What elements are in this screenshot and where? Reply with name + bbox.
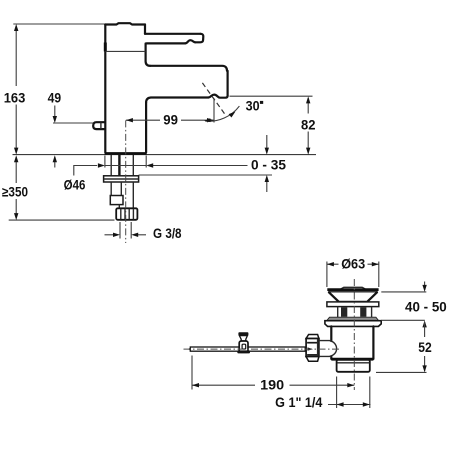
dim G1 1/4 line [328,404,371,406]
hose line [132,182,134,208]
left leg line a [110,182,112,196]
arrow 99 left [126,118,133,122]
spout outlet wave (bump on bottom edge) [208,95,227,98]
svg-text:G 1" 1/4: G 1" 1/4 [275,395,323,410]
G3/8 witness line left [119,222,121,239]
arrow 99 right [207,118,214,122]
52 extension line bottom [376,371,427,373]
arrow 163 down [14,148,18,155]
knurl rib 3 [128,209,130,220]
spout right edge [227,71,229,96]
dim 190 line left [192,384,255,386]
overflow slot left [341,307,347,317]
nut right facet line [317,339,319,356]
overflow slot right [360,307,366,317]
plug top disc thick edge [327,288,378,291]
arrow >=350 up [14,155,18,162]
slotted overflow cylinder [338,307,372,317]
rod nut bottom band [306,357,319,362]
40-50 extension line top [381,291,426,293]
G3/8 witness line right [130,222,132,239]
faucet cap top edge with bump [105,23,145,24]
body right edge between lever and spout [146,44,151,66]
arrow 0-35 up [265,175,269,182]
arrow G1 1/4 right [363,402,370,406]
arrow Ø46 right (pointing left at base) [146,163,153,167]
dimension 82 line upper [307,98,309,114]
lever main bottom edge [147,42,186,44]
arrow 0-35 down [265,148,269,155]
waste body left wall lower [330,356,332,359]
clamp block [239,341,248,352]
svg-text:49: 49 [48,91,62,106]
svg-text:G 3/8: G 3/8 [153,226,182,241]
svg-text:99: 99 [163,113,178,128]
flange mid line [104,178,138,180]
tailpiece thread line [337,362,369,364]
arrow 190 right [347,383,354,387]
clamp foot [237,350,250,353]
ring under plug [327,302,379,307]
plug rim under edge [329,291,378,293]
clamp hole [242,344,246,349]
arrow 40-50 down [422,285,426,292]
pop-up rod knob on rear [93,122,105,129]
dim 190 line right [290,384,355,386]
horizontal rod centerline [184,348,342,350]
rod pointed tip [188,347,190,351]
plug rim gray band [329,289,378,292]
cartridge joint tick on left edge [104,43,107,52]
>=350 bottom extension line [9,219,115,221]
plug cone right side [368,292,377,301]
pull rod bar [190,347,305,351]
waste body left wall [330,326,332,341]
base diameter extension stub right [145,156,147,168]
swivel dashed line [202,83,225,114]
arrow 40-50/52 up [422,320,426,327]
arc arrowhead left [204,118,210,122]
nut shade line top [307,342,318,344]
dimension 163 vertical line upper [15,26,17,86]
cap right edge above lever [144,25,146,34]
dimension 163 vertical line lower [15,105,17,153]
svg-text:163: 163 [4,91,26,106]
cap/body seam line [106,50,146,52]
Ø63 dim line left [327,263,339,265]
lever underside wave step [185,40,195,43]
base diameter extension stub left [104,156,106,168]
rod nut mid band [306,339,319,357]
arrow 82 down [306,148,310,155]
waste body centerline (dash-dot) [353,279,355,390]
dimension 99 line right [181,119,214,121]
degree mark of 30 [260,101,263,104]
arrow G3/8 right [131,233,138,237]
arrow 82 up [306,96,310,103]
swivel 30 deg arc [205,106,239,121]
svg-text:52: 52 [418,340,432,355]
fixing nut [110,196,123,205]
Ø63 witness line left [326,262,328,288]
waste body bottom thick bar [331,358,373,361]
waste top flange [325,321,381,327]
spout top edge [150,66,227,71]
arc arrowhead right (mid-arc) [229,112,236,118]
arrow 163 up [14,24,18,31]
shank tube left line [110,155,112,177]
arrow 49 up [53,155,57,162]
knurl rib 4 [132,209,134,220]
arrow 190 left [192,383,199,387]
clamp cap [238,332,248,335]
rod end inside nut [308,347,314,350]
nut shade line bottom [307,354,318,356]
spout outlet axis line [213,98,215,122]
Ø46 right arrow tail [153,165,248,167]
flange washer under deck [104,176,139,182]
dimension 0-35 upper arrow line [266,135,268,153]
spout bottom edge [146,98,208,103]
dimension 0-35 lower arrow line [266,177,268,192]
49 knob reference line [53,122,93,124]
arrow Ø63 right [372,262,379,266]
svg-text:Ø46: Ø46 [64,177,86,192]
shank inner line [132,155,134,177]
163 top extension line [13,23,105,25]
arrow G1 1/4 left [337,402,344,406]
rod stub below nut [118,205,120,209]
rubber seal (gray) [327,317,379,321]
arrow 49 down [53,116,57,123]
dimension >=350 line lower [15,199,17,218]
O46 dimension line across shank [105,165,146,167]
plug cap small top bump [341,287,365,289]
arrow Ø63 left [327,262,334,266]
Ø46 leader bent line [74,166,97,176]
arrow >=350 down [14,213,18,220]
dimension 49 upper line [54,106,56,122]
tailpiece [337,360,370,372]
lever rounded tip [195,34,203,43]
G1 1/4 witness line right [369,377,371,409]
G3/8 dim tail left [105,234,114,236]
body right edge below spout [145,102,147,152]
svg-text:190: 190 [260,377,284,392]
190 witness line left [191,356,193,390]
plug cone bottom line [338,300,367,302]
Ø63 witness line right [378,262,380,288]
Ø63 dim line right [368,263,379,265]
G3/8 dim tail right [138,234,146,236]
arrow 52 down [422,365,426,372]
knurled hose nut G3/8 [116,208,137,220]
svg-text:82: 82 [301,118,316,133]
arrow G3/8 left [113,233,120,237]
knurl rib 1 [120,209,122,220]
dim 52 lower shaft [424,356,426,371]
svg-text:40 - 50: 40 - 50 [405,299,447,314]
svg-text:30: 30 [246,98,260,113]
rod nut top band [306,335,319,339]
faucet cap+body left edge [104,25,106,153]
svg-text:≥350: ≥350 [2,184,28,199]
knurl rib 2 [124,209,126,220]
dim 40-50 upper shaft [424,282,426,291]
deck surface line [13,154,317,156]
svg-text:Ø63: Ø63 [341,257,365,272]
boss between nut and body [319,341,337,357]
40-50 extension line bottom [381,319,425,321]
G1 1/4 witness line left [336,377,338,409]
dim 52 upper shaft [424,322,426,337]
deck underside line (0-35 lower) [139,174,272,176]
knob inner line [100,122,102,129]
dimension 82 line lower [307,132,309,153]
svg-text:0 - 35: 0 - 35 [251,157,286,172]
faucet base bottom thick bar [105,152,147,155]
left leg line b [120,182,122,196]
dimension 99 line left [126,119,160,121]
lever top edge [145,33,201,35]
arrow Ø46 left (pointing right at base) [98,163,105,167]
dimension >=350 line upper [15,157,17,183]
threaded rod (thick) [118,155,120,177]
waste body right wall [372,326,374,359]
plug cone left side [329,292,338,301]
clamp neck [239,336,247,341]
dimension 49 lower line [54,157,56,168]
faucet centerline (dash-dot) [125,120,127,243]
82 top extension line [230,95,313,97]
